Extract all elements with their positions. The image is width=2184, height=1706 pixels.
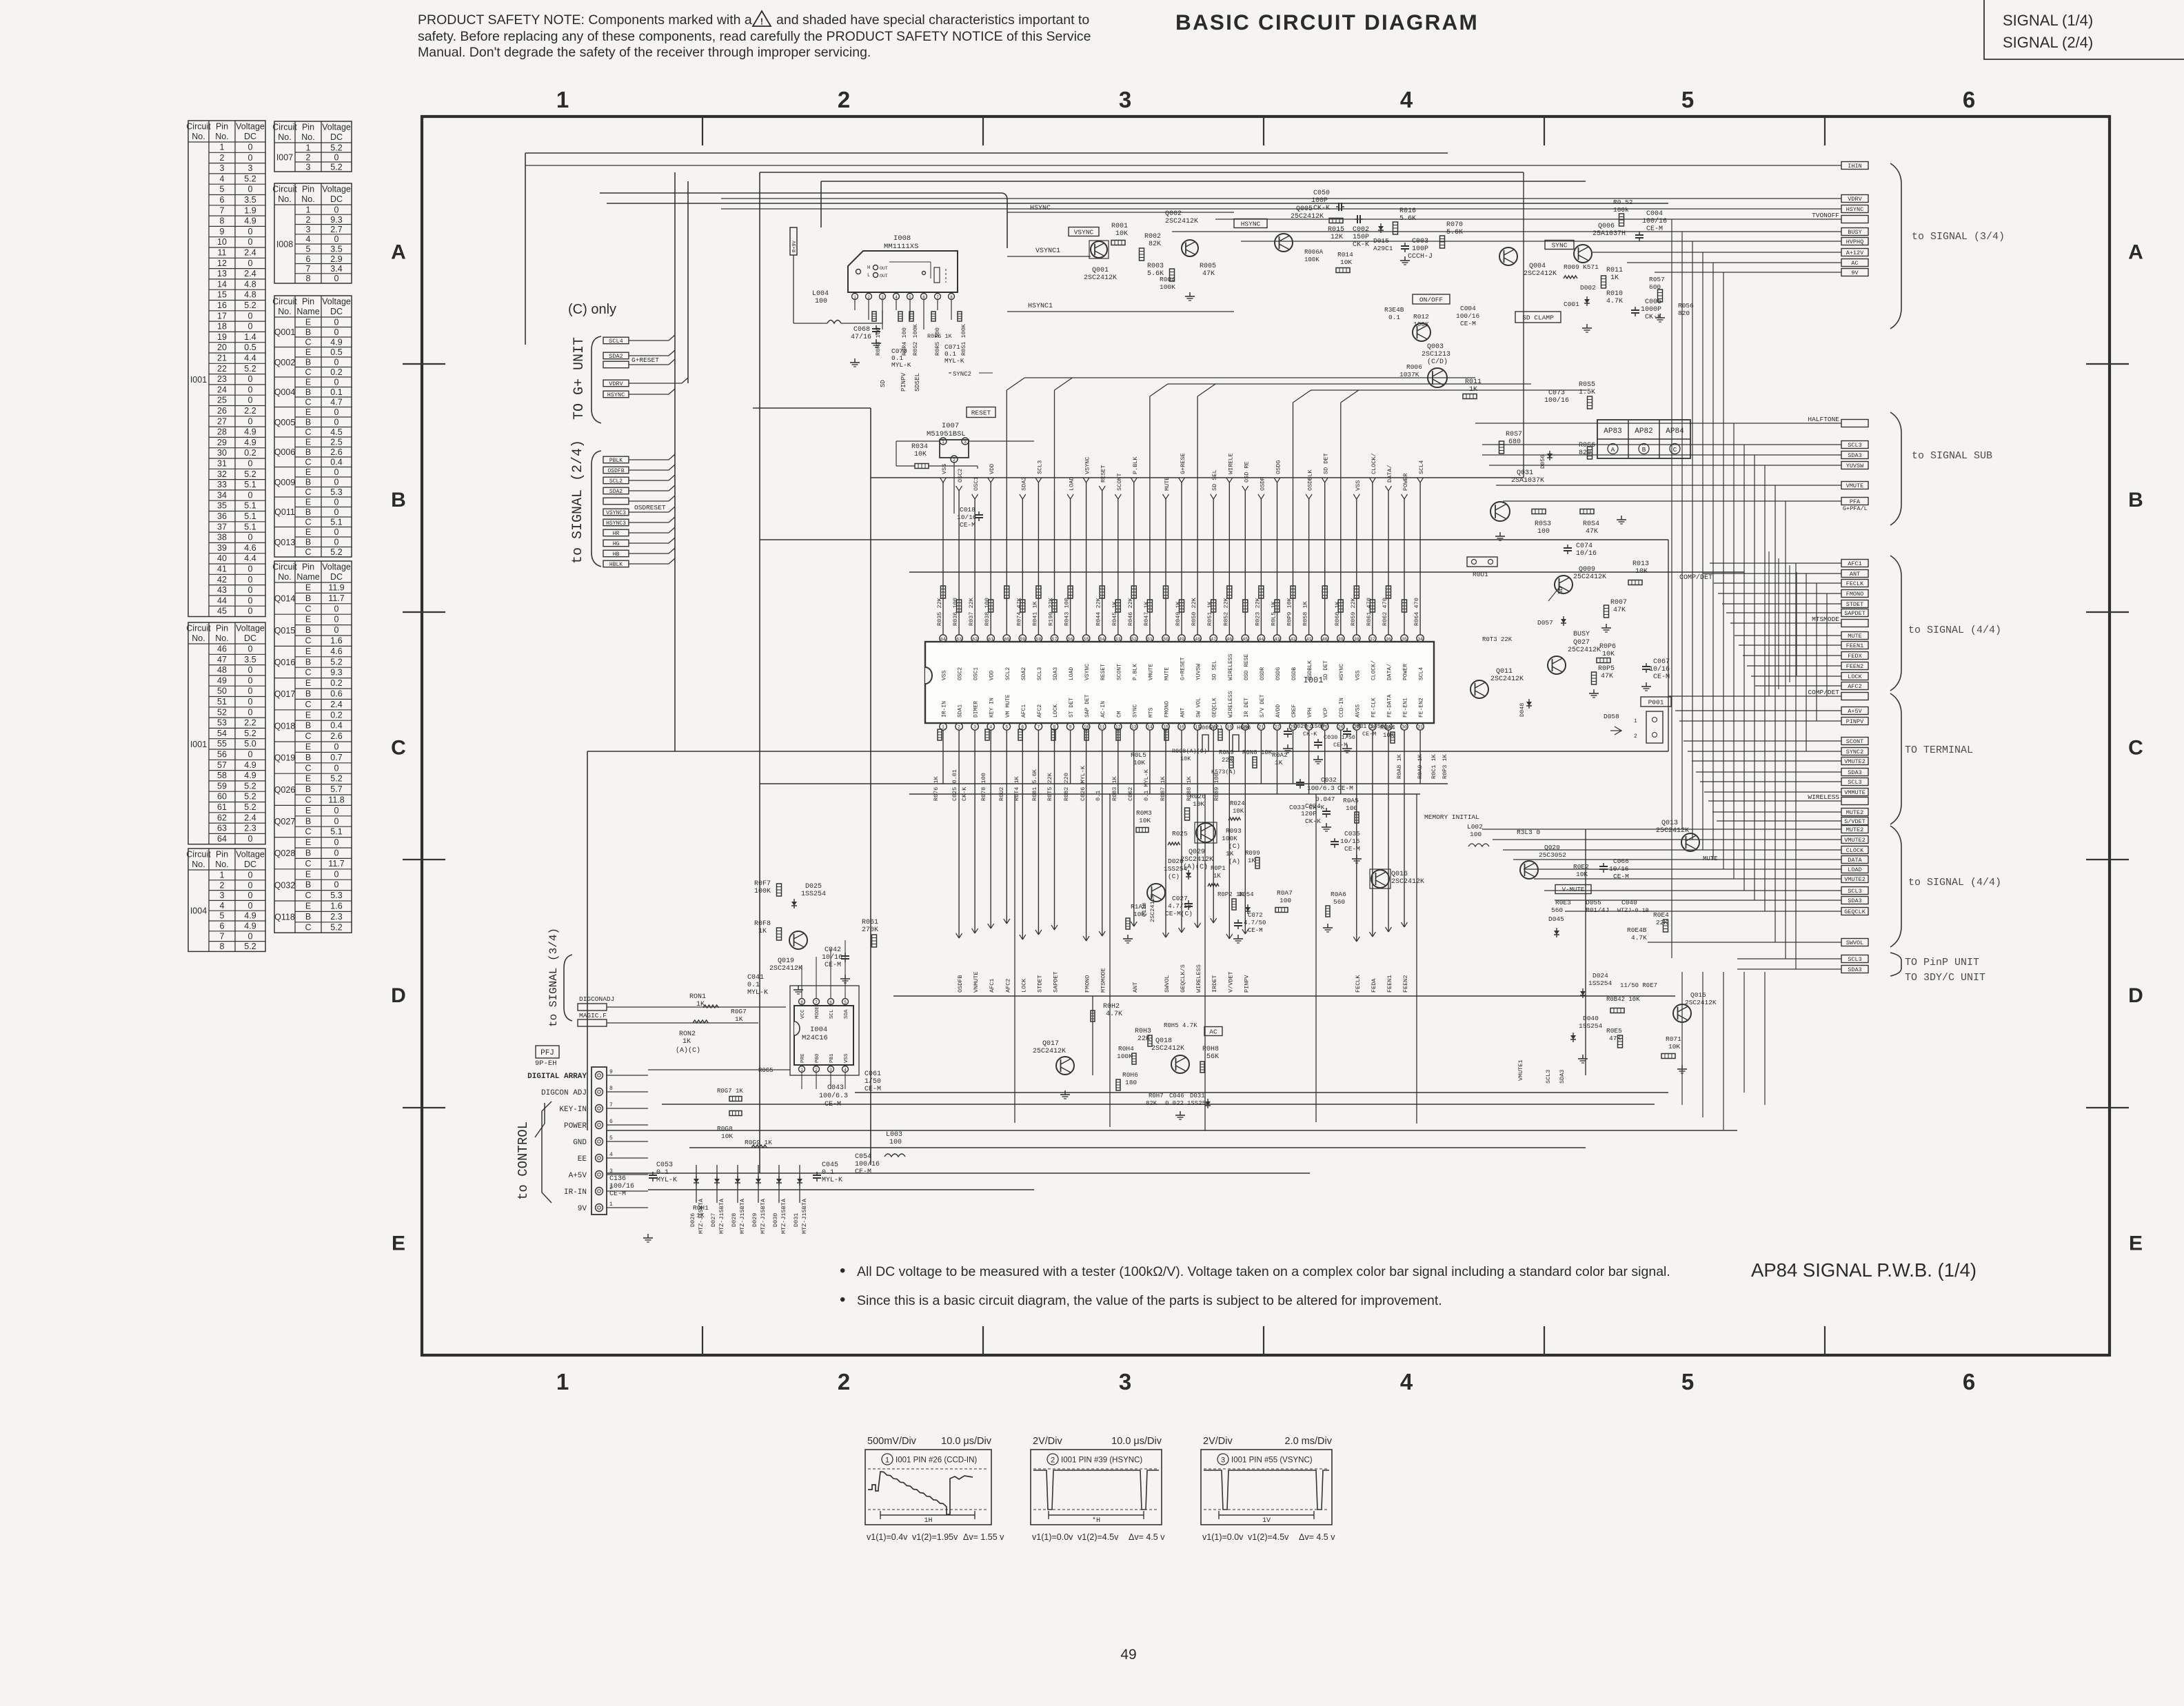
svg-text:0: 0 bbox=[248, 585, 253, 595]
svg-text:R078 100: R078 100 bbox=[980, 773, 987, 801]
svg-text:to SIGNAL (3/4): to SIGNAL (3/4) bbox=[1912, 231, 2005, 243]
svg-text:48: 48 bbox=[217, 665, 227, 675]
svg-text:VSYNC3: VSYNC3 bbox=[606, 510, 626, 516]
svg-text:0: 0 bbox=[334, 604, 339, 613]
svg-text:CLOCK: CLOCK bbox=[1846, 847, 1864, 854]
svg-text:MTS: MTS bbox=[1148, 707, 1154, 718]
svg-text:L002: L002 bbox=[1467, 823, 1483, 831]
svg-text:AFC1: AFC1 bbox=[1848, 560, 1861, 567]
svg-text:2.4: 2.4 bbox=[244, 269, 256, 278]
svg-text:I008: I008 bbox=[893, 234, 911, 243]
svg-text:C029 150P: C029 150P bbox=[1293, 723, 1325, 730]
svg-text:57: 57 bbox=[217, 760, 227, 770]
svg-text:FE-DATA: FE-DATA bbox=[1387, 694, 1393, 718]
svg-text:R051 1K: R051 1K bbox=[1206, 600, 1213, 626]
svg-text:100/6.3: 100/6.3 bbox=[1307, 784, 1335, 792]
svg-text:OSDRESET: OSDRESET bbox=[634, 504, 666, 511]
svg-text:ON/OFF: ON/OFF bbox=[1419, 296, 1444, 303]
svg-text:R002: R002 bbox=[1144, 233, 1161, 241]
svg-text:0: 0 bbox=[334, 498, 339, 507]
svg-text:MUTE: MUTE bbox=[1164, 477, 1171, 491]
svg-text:MUTE: MUTE bbox=[1848, 633, 1861, 640]
svg-text:1: 1 bbox=[556, 1369, 569, 1394]
svg-text:D024: D024 bbox=[1593, 972, 1608, 979]
svg-text:SD DET: SD DET bbox=[1323, 660, 1329, 680]
svg-text:1K: 1K bbox=[696, 1212, 705, 1219]
svg-text:SCL4: SCL4 bbox=[1418, 460, 1425, 474]
svg-text:SDA1: SDA1 bbox=[958, 704, 964, 718]
svg-text:R076 1K: R076 1K bbox=[933, 775, 940, 801]
svg-text:P001: P001 bbox=[1648, 698, 1664, 706]
svg-text:B: B bbox=[305, 593, 311, 603]
svg-text:R070: R070 bbox=[1446, 221, 1463, 229]
svg-text:R001: R001 bbox=[1111, 223, 1128, 230]
svg-text:5.2: 5.2 bbox=[244, 174, 256, 183]
svg-text:R0G7 1K: R0G7 1K bbox=[717, 1088, 743, 1095]
svg-text:K573(A): K573(A) bbox=[1211, 769, 1236, 775]
svg-text:SAP DET: SAP DET bbox=[1084, 694, 1091, 718]
svg-text:64: 64 bbox=[940, 637, 946, 642]
svg-text:4: 4 bbox=[220, 901, 225, 911]
svg-text:FMONO: FMONO bbox=[1084, 975, 1091, 993]
svg-text:R0R5 100: R0R5 100 bbox=[934, 327, 941, 356]
svg-text:5.2: 5.2 bbox=[244, 729, 256, 738]
svg-text:R056: R056 bbox=[1678, 302, 1694, 309]
svg-text:0: 0 bbox=[248, 311, 253, 321]
svg-text:SD SEL: SD SEL bbox=[1211, 469, 1218, 491]
svg-text:100/16: 100/16 bbox=[1642, 217, 1667, 225]
svg-text:AC: AC bbox=[1209, 1028, 1217, 1035]
svg-text:2SC1213: 2SC1213 bbox=[1422, 351, 1450, 358]
svg-text:SCL2: SCL2 bbox=[1005, 667, 1011, 680]
svg-text:2: 2 bbox=[838, 87, 850, 112]
svg-text:OSC2: OSC2 bbox=[958, 667, 964, 680]
svg-text:R006A: R006A bbox=[1304, 249, 1324, 256]
svg-text:R074 47K: R074 47K bbox=[1015, 597, 1022, 626]
svg-text:MYL-K: MYL-K bbox=[822, 1177, 842, 1184]
svg-text:0: 0 bbox=[334, 806, 339, 815]
svg-text:VSS: VSS bbox=[1355, 480, 1362, 491]
svg-text:D055: D055 bbox=[1586, 899, 1601, 906]
svg-text:2: 2 bbox=[306, 153, 311, 163]
svg-text:3: 3 bbox=[306, 225, 311, 234]
svg-text:5: 5 bbox=[909, 295, 911, 300]
svg-text:AP82: AP82 bbox=[1635, 427, 1652, 436]
svg-text:SCL3: SCL3 bbox=[1848, 442, 1861, 449]
svg-text:R0L5: R0L5 bbox=[1131, 751, 1146, 759]
svg-text:47: 47 bbox=[1211, 637, 1216, 642]
svg-text:SCONT: SCONT bbox=[1116, 473, 1123, 491]
svg-text:(C) only: (C) only bbox=[568, 302, 616, 317]
svg-text:SD SEL: SD SEL bbox=[1212, 660, 1218, 680]
svg-text:Pin: Pin bbox=[216, 122, 228, 132]
svg-text:E: E bbox=[305, 647, 311, 656]
svg-text:B: B bbox=[305, 507, 311, 517]
svg-text:R0P1: R0P1 bbox=[1211, 865, 1226, 872]
svg-text:R041 1K: R041 1K bbox=[1031, 600, 1038, 626]
svg-text:COMP/DET: COMP/DET bbox=[1808, 689, 1839, 696]
svg-text:100: 100 bbox=[1280, 897, 1291, 904]
svg-text:60: 60 bbox=[1004, 637, 1009, 642]
svg-text:47/16: 47/16 bbox=[851, 333, 871, 341]
svg-text:4.9: 4.9 bbox=[244, 216, 256, 226]
svg-text:R059 22K: R059 22K bbox=[1350, 597, 1357, 626]
svg-text:11: 11 bbox=[1100, 725, 1105, 730]
svg-text:R0A5: R0A5 bbox=[1343, 797, 1359, 804]
svg-text:R004: R004 bbox=[1160, 276, 1175, 283]
svg-text:FEDX: FEDX bbox=[1848, 653, 1861, 660]
svg-text:0: 0 bbox=[334, 478, 339, 487]
svg-text:3: 3 bbox=[220, 891, 225, 900]
svg-text:R087 1K: R087 1K bbox=[1160, 775, 1166, 801]
svg-text:HSYNC: HSYNC bbox=[1030, 205, 1051, 212]
svg-text:OSDBLK: OSDBLK bbox=[1307, 469, 1314, 491]
svg-text:0: 0 bbox=[248, 834, 253, 844]
svg-text:Voltage: Voltage bbox=[236, 850, 265, 860]
svg-text:0: 0 bbox=[248, 596, 253, 605]
svg-text:SIGNAL (2/4): SIGNAL (2/4) bbox=[2003, 34, 2093, 51]
svg-text:R058 1K: R058 1K bbox=[1302, 600, 1309, 626]
svg-text:S/VDET: S/VDET bbox=[1844, 818, 1866, 825]
svg-text:VSS: VSS bbox=[942, 670, 948, 680]
svg-text:STDET: STDET bbox=[1036, 975, 1043, 993]
svg-text:(C/D): (C/D) bbox=[1427, 358, 1448, 366]
svg-text:59: 59 bbox=[1020, 637, 1025, 642]
svg-text:HBLK: HBLK bbox=[609, 562, 623, 568]
svg-text:56K: 56K bbox=[1206, 1053, 1219, 1061]
svg-text:35: 35 bbox=[1402, 637, 1407, 642]
svg-text:0: 0 bbox=[334, 742, 339, 752]
svg-text:v1(2)=4.5v: v1(2)=4.5v bbox=[1248, 1532, 1289, 1542]
svg-text:Pin: Pin bbox=[216, 850, 228, 860]
svg-text:25C2412K: 25C2412K bbox=[1656, 827, 1689, 835]
svg-text:10.0 μs/Div: 10.0 μs/Div bbox=[1111, 1436, 1162, 1447]
svg-text:0: 0 bbox=[248, 490, 253, 500]
svg-text:25C2412K: 25C2412K bbox=[1573, 573, 1606, 581]
svg-text:P.BLK: P.BLK bbox=[1132, 456, 1139, 474]
svg-text:MTZ-J15BTA: MTZ-J15BTA bbox=[801, 1198, 808, 1234]
svg-text:D026: D026 bbox=[689, 1213, 696, 1227]
svg-text:Q009: Q009 bbox=[274, 478, 296, 487]
svg-text:No.: No. bbox=[192, 633, 205, 643]
svg-text:Manual. Don't degrade the safe: Manual. Don't degrade the safety of the … bbox=[418, 45, 871, 60]
svg-text:5.2: 5.2 bbox=[244, 792, 256, 802]
svg-text:0: 0 bbox=[334, 538, 339, 547]
svg-text:5: 5 bbox=[1681, 1369, 1694, 1394]
svg-text:R083 1K: R083 1K bbox=[1111, 775, 1118, 801]
svg-text:2SC2412K: 2SC2412K bbox=[1685, 999, 1717, 1006]
svg-text:CE-M: CE-M bbox=[1248, 927, 1263, 934]
svg-text:No.: No. bbox=[278, 132, 291, 142]
svg-text:LOCK: LOCK bbox=[1848, 673, 1862, 680]
svg-text:Q011: Q011 bbox=[1496, 668, 1513, 676]
svg-text:18: 18 bbox=[217, 322, 227, 332]
svg-text:RON2: RON2 bbox=[679, 1030, 696, 1038]
svg-text:SDA3: SDA3 bbox=[1053, 667, 1059, 680]
svg-text:No.: No. bbox=[278, 572, 291, 582]
svg-text:82K: 82K bbox=[1149, 241, 1161, 248]
svg-text:0.047: 0.047 bbox=[1315, 795, 1335, 803]
svg-text:0: 0 bbox=[334, 869, 339, 879]
svg-text:4.4: 4.4 bbox=[244, 354, 256, 363]
svg-text:ANT: ANT bbox=[1850, 571, 1860, 578]
svg-text:VMUTE2: VMUTE2 bbox=[1844, 837, 1866, 844]
svg-text:48: 48 bbox=[1195, 637, 1200, 642]
svg-text:4.9: 4.9 bbox=[244, 771, 256, 780]
svg-text:D057: D057 bbox=[1537, 619, 1553, 627]
svg-text:E: E bbox=[305, 615, 311, 624]
svg-text:D002: D002 bbox=[1580, 284, 1596, 292]
svg-text:D058: D058 bbox=[1604, 713, 1619, 720]
svg-text:3.5: 3.5 bbox=[330, 245, 342, 254]
svg-text:6: 6 bbox=[829, 1000, 832, 1005]
svg-text:OSD RE: OSD RE bbox=[1243, 461, 1250, 483]
svg-text:6: 6 bbox=[220, 195, 225, 205]
svg-text:31: 31 bbox=[1417, 725, 1423, 730]
svg-text:D015: D015 bbox=[1373, 237, 1389, 245]
svg-text:10K: 10K bbox=[1233, 808, 1244, 815]
svg-text:100/16: 100/16 bbox=[1456, 312, 1480, 320]
svg-text:100: 100 bbox=[889, 1139, 902, 1146]
svg-text:10K: 10K bbox=[1139, 817, 1151, 824]
svg-text:PINPV: PINPV bbox=[1243, 975, 1250, 993]
svg-text:62: 62 bbox=[972, 637, 978, 642]
svg-text:C053: C053 bbox=[656, 1161, 673, 1169]
svg-text:5.1: 5.1 bbox=[244, 522, 256, 531]
svg-text:C072: C072 bbox=[1248, 912, 1263, 919]
svg-text:SAPDET: SAPDET bbox=[1053, 971, 1060, 993]
svg-text:Δv= 4.5 v: Δv= 4.5 v bbox=[1299, 1532, 1335, 1542]
svg-text:DC: DC bbox=[330, 572, 343, 582]
svg-text:5.2: 5.2 bbox=[244, 781, 256, 791]
svg-text:3: 3 bbox=[973, 725, 976, 730]
svg-text:C: C bbox=[305, 636, 311, 646]
svg-text:100k: 100k bbox=[1613, 206, 1629, 214]
svg-text:0: 0 bbox=[248, 227, 253, 236]
svg-text:4: 4 bbox=[989, 725, 992, 730]
svg-text:R061 470: R061 470 bbox=[1366, 598, 1373, 626]
svg-text:C: C bbox=[305, 891, 311, 900]
svg-text:2.4: 2.4 bbox=[244, 248, 256, 258]
svg-text:Q005: Q005 bbox=[1296, 205, 1313, 213]
svg-text:0: 0 bbox=[248, 644, 253, 654]
svg-text:R037 22K: R037 22K bbox=[968, 597, 975, 626]
svg-text:CLOCK/: CLOCK/ bbox=[1371, 660, 1377, 680]
svg-text:Voltage: Voltage bbox=[322, 123, 351, 132]
svg-text:HSYNC1: HSYNC1 bbox=[1028, 303, 1053, 310]
svg-text:PRE: PRE bbox=[800, 1053, 806, 1063]
svg-text:47K: 47K bbox=[1601, 673, 1613, 680]
svg-text:CK-K: CK-K bbox=[1313, 205, 1330, 212]
svg-text:MUTE: MUTE bbox=[1164, 667, 1171, 680]
svg-text:5.1: 5.1 bbox=[330, 827, 342, 837]
svg-text:CE-M: CE-M bbox=[855, 1168, 871, 1176]
svg-text:MYL-K: MYL-K bbox=[944, 357, 964, 365]
svg-text:61: 61 bbox=[217, 802, 227, 812]
svg-text:5.6K: 5.6K bbox=[1399, 215, 1416, 223]
svg-text:2SC2412K: 2SC2412K bbox=[1180, 856, 1213, 864]
svg-text:25C2412K: 25C2412K bbox=[1291, 213, 1324, 221]
svg-text:55: 55 bbox=[217, 739, 227, 749]
svg-text:6: 6 bbox=[1963, 1369, 1975, 1394]
svg-text:11/50 R0E7: 11/50 R0E7 bbox=[1620, 982, 1657, 989]
svg-text:R0R6 1K: R0R6 1K bbox=[927, 333, 953, 340]
svg-text:9.3: 9.3 bbox=[330, 215, 342, 225]
svg-text:E: E bbox=[305, 742, 311, 752]
svg-text:VMUTE2: VMUTE2 bbox=[1844, 758, 1866, 765]
svg-text:C068: C068 bbox=[853, 326, 870, 334]
svg-text:C046: C046 bbox=[1169, 1093, 1184, 1099]
svg-text:CE-M: CE-M bbox=[1653, 673, 1670, 681]
svg-text:Q027: Q027 bbox=[274, 817, 296, 826]
svg-text:21: 21 bbox=[217, 354, 227, 363]
svg-text:Q005: Q005 bbox=[274, 418, 296, 427]
svg-text:Q002: Q002 bbox=[1165, 210, 1182, 218]
svg-text:1K: 1K bbox=[1213, 873, 1221, 880]
svg-text:R0E3: R0E3 bbox=[1555, 899, 1571, 906]
svg-text:IR DET: IR DET bbox=[1244, 698, 1250, 718]
svg-text:42: 42 bbox=[1291, 637, 1296, 642]
svg-text:Voltage: Voltage bbox=[322, 297, 351, 307]
svg-text:Q018: Q018 bbox=[1155, 1037, 1172, 1045]
svg-text:EE: EE bbox=[578, 1155, 587, 1164]
svg-text:R0L5 1K: R0L5 1K bbox=[1271, 600, 1277, 626]
svg-text:2.6: 2.6 bbox=[330, 447, 342, 457]
svg-text:•: • bbox=[840, 1290, 845, 1309]
svg-text:OSC2: OSC2 bbox=[957, 469, 964, 483]
svg-text:DC: DC bbox=[244, 633, 256, 643]
svg-text:33: 33 bbox=[217, 480, 227, 489]
svg-text:B: B bbox=[391, 489, 406, 511]
svg-text:53: 53 bbox=[1115, 637, 1121, 642]
svg-text:1000P: 1000P bbox=[1641, 306, 1661, 314]
svg-text:49: 49 bbox=[1179, 637, 1184, 642]
svg-text:21: 21 bbox=[1258, 725, 1264, 730]
svg-text:SCL3: SCL3 bbox=[1848, 888, 1861, 895]
svg-text:0.2: 0.2 bbox=[244, 448, 256, 458]
svg-text:2SC2412K: 2SC2412K bbox=[1149, 893, 1156, 922]
svg-text:IR-IN: IR-IN bbox=[942, 701, 948, 718]
svg-text:D031: D031 bbox=[1190, 1093, 1205, 1099]
svg-text:7: 7 bbox=[815, 1000, 818, 1005]
svg-text:1K: 1K bbox=[1248, 857, 1255, 864]
svg-text:PINPV: PINPV bbox=[1846, 718, 1864, 725]
svg-text:Q016: Q016 bbox=[274, 658, 296, 667]
svg-text:LOCK: LOCK bbox=[1053, 704, 1059, 718]
svg-text:0: 0 bbox=[248, 901, 253, 911]
svg-text:9.3: 9.3 bbox=[330, 668, 342, 678]
svg-text:Q001: Q001 bbox=[274, 327, 296, 337]
svg-text:Q019: Q019 bbox=[274, 753, 296, 763]
svg-text:HVPHQ: HVPHQ bbox=[1846, 238, 1864, 245]
svg-text:C043: C043 bbox=[827, 1084, 844, 1092]
svg-text:LOAD: LOAD bbox=[1069, 477, 1075, 491]
svg-text:100K: 100K bbox=[1413, 321, 1429, 328]
svg-text:42: 42 bbox=[217, 575, 227, 585]
svg-text:39: 39 bbox=[217, 543, 227, 553]
svg-text:A+5V: A+5V bbox=[1848, 708, 1862, 715]
svg-text:B: B bbox=[305, 358, 311, 367]
svg-text:R+9V: R+9V bbox=[792, 240, 798, 252]
svg-text:to CONTROL: to CONTROL bbox=[516, 1121, 531, 1200]
svg-text:No.: No. bbox=[215, 132, 228, 141]
svg-text:100: 100 bbox=[815, 298, 827, 305]
svg-text:L004: L004 bbox=[812, 290, 829, 298]
svg-text:SWVOL: SWVOL bbox=[1846, 940, 1864, 946]
svg-text:5: 5 bbox=[220, 185, 225, 194]
svg-text:0.4: 0.4 bbox=[330, 721, 342, 731]
svg-text:R3L3 0: R3L3 0 bbox=[1517, 829, 1541, 836]
svg-text:HG: HG bbox=[613, 541, 620, 547]
svg-text:R1A8: R1A8 bbox=[1131, 903, 1146, 911]
svg-text:KEY-IN: KEY-IN bbox=[559, 1106, 587, 1114]
svg-text:40: 40 bbox=[1322, 637, 1328, 642]
svg-text:WIRELESS: WIRELESS bbox=[1228, 653, 1234, 680]
svg-text:Name: Name bbox=[296, 572, 319, 582]
svg-text:BASIC CIRCUIT DIAGRAM: BASIC CIRCUIT DIAGRAM bbox=[1175, 10, 1479, 34]
svg-text:4.7K: 4.7K bbox=[1106, 1011, 1122, 1018]
svg-text:SD DET: SD DET bbox=[1323, 453, 1330, 474]
svg-text:R0G9 1K: R0G9 1K bbox=[745, 1139, 772, 1146]
svg-text:54: 54 bbox=[1100, 637, 1105, 642]
svg-text:0: 0 bbox=[334, 615, 339, 624]
svg-text:BUSY: BUSY bbox=[1848, 229, 1861, 236]
svg-text:0: 0 bbox=[334, 274, 339, 283]
svg-text:R060 1K: R060 1K bbox=[1334, 600, 1341, 626]
svg-text:C: C bbox=[391, 737, 406, 760]
svg-text:34: 34 bbox=[217, 490, 227, 500]
svg-text:Pin: Pin bbox=[302, 562, 314, 572]
svg-text:R0N9: R0N9 bbox=[1219, 749, 1234, 756]
svg-text:4: 4 bbox=[1400, 87, 1413, 112]
svg-text:CK-K: CK-K bbox=[1353, 241, 1369, 249]
svg-text:100K: 100K bbox=[1117, 1053, 1133, 1060]
svg-text:R050 22K: R050 22K bbox=[1191, 597, 1197, 626]
svg-text:5.1: 5.1 bbox=[244, 480, 256, 489]
svg-text:10K: 10K bbox=[1180, 755, 1191, 762]
svg-text:2.7: 2.7 bbox=[330, 225, 342, 234]
svg-text:47K: 47K bbox=[1613, 607, 1626, 614]
svg-text:0.4: 0.4 bbox=[330, 458, 342, 467]
svg-text:CE-M: CE-M bbox=[609, 1190, 626, 1198]
svg-text:GEQCLK: GEQCLK bbox=[1212, 698, 1218, 718]
svg-text:0: 0 bbox=[334, 327, 339, 337]
svg-text:C: C bbox=[1673, 446, 1677, 454]
svg-text:56: 56 bbox=[1068, 637, 1073, 642]
svg-text:5: 5 bbox=[306, 245, 311, 254]
svg-text:13: 13 bbox=[1131, 725, 1137, 730]
svg-text:2V/Div: 2V/Div bbox=[1033, 1436, 1062, 1447]
svg-text:11.9: 11.9 bbox=[328, 583, 344, 593]
svg-text:10K: 10K bbox=[1635, 568, 1648, 576]
svg-text:CE-M: CE-M bbox=[1362, 731, 1376, 738]
svg-text:CE-M: CE-M bbox=[1460, 320, 1476, 327]
svg-text:C026 MYL-K: C026 MYL-K bbox=[1080, 765, 1086, 801]
svg-text:VMMUTE: VMMUTE bbox=[1844, 789, 1866, 796]
svg-text:D020: D020 bbox=[1168, 857, 1184, 865]
svg-text:C004: C004 bbox=[1646, 210, 1663, 218]
svg-text:51: 51 bbox=[1147, 637, 1153, 642]
svg-text:44: 44 bbox=[1258, 637, 1264, 642]
svg-text:11: 11 bbox=[218, 248, 227, 258]
svg-text:H006: H006 bbox=[1237, 724, 1251, 731]
svg-text:10/16: 10/16 bbox=[957, 514, 977, 521]
svg-text:MTZ-J15BTA: MTZ-J15BTA bbox=[739, 1198, 746, 1234]
svg-text:SCL3: SCL3 bbox=[1848, 956, 1861, 963]
svg-text:24: 24 bbox=[217, 385, 227, 394]
svg-text:No.: No. bbox=[215, 633, 228, 643]
svg-text:0: 0 bbox=[334, 234, 339, 244]
